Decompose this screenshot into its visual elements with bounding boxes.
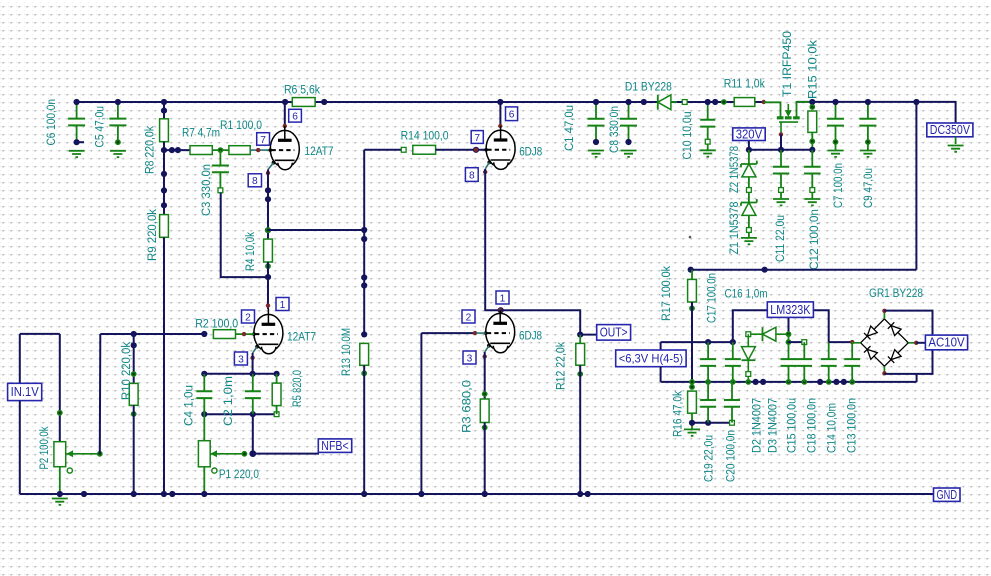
wire bridge top to AC10V [884, 311, 932, 336]
wire heater + rail [661, 341, 733, 343]
junction dot left of D1 [641, 99, 647, 105]
wire to 6,3V label [660, 342, 662, 350]
svg-text:3: 3 [467, 353, 473, 364]
svg-text:R4 10,0k: R4 10,0k [243, 231, 257, 271]
wire C2 node down to NFB node [252, 414, 254, 453]
capacitor C5 top lead [117, 102, 119, 119]
svg-text:2: 2 [466, 312, 472, 323]
svg-text:C7 100,0n: C7 100,0n [831, 163, 845, 208]
junction dot [161, 187, 167, 193]
junction dot [161, 202, 167, 208]
pin bridge AC right [914, 341, 918, 345]
capacitor C9 [859, 119, 876, 126]
pin bridge AC top [882, 309, 886, 313]
svg-text:6DJ8: 6DJ8 [519, 145, 542, 159]
capacitor C3 top lead [219, 150, 221, 165]
junction dot [712, 99, 718, 105]
wire lower node row [204, 413, 276, 415]
ground below C11 [773, 199, 789, 205]
wire input left lower to ground bus [19, 401, 21, 494]
pin P1 wiper [242, 451, 248, 457]
junction dot on R8 top lead [161, 108, 167, 114]
pin on rail after D1 [682, 100, 687, 105]
wire R16 to ground [691, 413, 693, 429]
svg-text:C9 47,0u: C9 47,0u [861, 168, 875, 208]
pin number 6 upper 12AT7 [289, 109, 302, 122]
junction C11 top / T1 source [778, 147, 784, 153]
triode V2 6DJ8 lower half [484, 313, 515, 354]
wire P2 wiper up to grid node [99, 334, 102, 454]
capacitor C12 [804, 167, 821, 174]
svg-text:C10 10,0u: C10 10,0u [680, 112, 694, 160]
svg-text:C17 100,0n: C17 100,0n [705, 273, 719, 323]
pin R14 left [401, 147, 406, 152]
wire 320V label stub [748, 141, 750, 150]
grid lead lower 6DJ8 [476, 332, 486, 334]
wire R14 node down R13 column [363, 150, 365, 336]
junction dot R13 top [361, 331, 367, 337]
cathode lead upper 12AT7 [268, 163, 274, 170]
junction T1 drain/rail [809, 99, 815, 105]
wire C14 node to bridge + [829, 341, 853, 343]
pin 6 marker upper 6DJ8 [498, 124, 502, 128]
wire R4 top node to R13 column [268, 229, 364, 231]
capacitor C7 top lead [835, 102, 837, 119]
wire R12 to ground bus [579, 365, 581, 494]
pin 8 marker upper 6DJ8 [483, 170, 487, 174]
svg-text:C20 100,0n: C20 100,0n [724, 430, 738, 482]
junction R12/ground bus [577, 491, 583, 497]
wire node to R7 [164, 149, 190, 151]
bridge rectifier GR1 BY228 [861, 319, 909, 366]
net label NFB [318, 439, 351, 453]
capacitor C2 top lead [252, 374, 254, 392]
junction C17 top [705, 339, 711, 345]
wire D1 anode lead [671, 101, 677, 103]
pin marker R11/gate node [762, 100, 766, 104]
wire R3 to ground bus [484, 423, 486, 495]
junction cathode [250, 371, 256, 377]
junction R8/R9/R7 node [161, 147, 167, 153]
junction P2/ground bus [57, 491, 63, 497]
junction R6/plate wire [282, 99, 288, 105]
pin 6 marker upper 12AT7 [283, 124, 287, 128]
wire output node to OUT [501, 310, 581, 334]
transistor T1 IRFP450 [777, 102, 813, 134]
pin C11 bottom [779, 188, 784, 193]
pin D2 cathode [746, 372, 751, 377]
wire R17 down to heater bus [691, 302, 693, 382]
junction pin on heater bus [849, 379, 855, 385]
ground below R16 [684, 429, 700, 435]
potentiometer P1 [198, 441, 210, 467]
pin Z1 bottom [747, 228, 752, 233]
net label 320V [733, 128, 766, 141]
pin R16 top [689, 384, 695, 390]
junction dot [265, 196, 271, 202]
resistor R6 [292, 98, 315, 107]
svg-text:C18 100,0n: C18 100,0n [805, 398, 819, 453]
junction C8/rail [625, 99, 631, 105]
capacitor C19 top lead [707, 382, 709, 400]
svg-text:R1 100,0: R1 100,0 [220, 118, 262, 132]
pin R10 bottom [131, 411, 137, 417]
capacitor C11 top lead [780, 150, 782, 167]
cathode lead lower 12AT7 [253, 347, 257, 353]
junction R5 top [274, 371, 280, 377]
wire T1 source down [780, 134, 782, 149]
ground below C6 [69, 151, 85, 157]
svg-text:C4 1,0u: C4 1,0u [182, 385, 196, 426]
wire rail to plate pin 6 upper 6DJ8 [499, 102, 501, 126]
wire to Z2 [748, 150, 750, 164]
triode V2 6DJ8 upper half [484, 130, 515, 171]
junction R15 bottom / C12 top [809, 147, 815, 153]
svg-text:7: 7 [260, 135, 266, 146]
svg-text:R6 5,6k: R6 5,6k [284, 83, 321, 97]
pin 8 marker upper 12AT7 [266, 171, 270, 175]
pin number 6 upper 6DJ8 [506, 107, 518, 121]
resistor R11 [734, 98, 755, 107]
junction dot on ground bus [81, 491, 87, 497]
ground below Z1 [741, 238, 757, 244]
pin C18 top [802, 340, 807, 345]
wire node to P1 top [203, 414, 205, 441]
junction dot [265, 187, 271, 193]
junction C6 bottom [74, 139, 80, 145]
junction C15 top [786, 339, 792, 345]
svg-text:6: 6 [292, 112, 298, 123]
wire P1 bottom to ground bus [203, 467, 205, 494]
svg-text:12AT7: 12AT7 [287, 330, 316, 344]
capacitor C14 top lead [828, 342, 830, 359]
potentiometer P2 wiper arrow [66, 453, 100, 455]
svg-text:R12 22,0k: R12 22,0k [554, 341, 568, 390]
svg-text:8: 8 [469, 170, 475, 181]
ground below C1 [588, 151, 604, 157]
svg-text:C3 330,0n: C3 330,0n [199, 164, 213, 216]
wire LM323K output side [733, 310, 768, 342]
pin P2 top [57, 410, 63, 416]
svg-text:R17 100,0k: R17 100,0k [659, 265, 673, 321]
wire grid node to R10 [133, 334, 135, 383]
capacitor C11 [773, 167, 790, 174]
plate lead inside tube upper 6DJ8 [500, 126, 502, 131]
resistor R12 top lead [579, 335, 581, 344]
capacitor C4 [196, 391, 212, 398]
pin R3 bottom [482, 425, 488, 431]
junction dot [585, 491, 591, 497]
pin R4 bottom [265, 263, 271, 269]
junction on R13 column [361, 227, 367, 233]
resistor R7 [190, 146, 212, 155]
wire C3 bottom to R4/anode node [221, 193, 268, 277]
capacitor C16 [725, 359, 741, 366]
wire cathode node row [204, 373, 276, 375]
junction R3/ground bus [482, 491, 488, 497]
junction pin on heater bus [705, 379, 711, 385]
wire B+ rail right section to DC350V [797, 102, 956, 123]
junction pin on heater bus [730, 379, 736, 385]
junction dot on heater bus [841, 379, 847, 385]
pin source T1 [779, 132, 783, 136]
pin number 2 lower 12AT7 [242, 310, 255, 323]
svg-text:8: 8 [252, 176, 258, 187]
terminal circle P1 [212, 468, 217, 473]
ground below C12 [804, 199, 820, 205]
svg-text:Z2 1N5378: Z2 1N5378 [727, 146, 741, 193]
pin number 2 lower 6DJ8 [462, 310, 475, 323]
wire LM323K input side [813, 310, 828, 342]
capacitor C2 [245, 391, 261, 398]
pin C10 bottom [705, 139, 710, 144]
svg-text:R15 10,0k: R15 10,0k [806, 39, 820, 99]
pin C9 bottom [865, 139, 871, 145]
junction plate pin lower 6DJ8 [498, 307, 504, 313]
capacitor C8 top lead [628, 102, 630, 119]
capacitor C15 [781, 359, 797, 366]
junction R17 top [688, 267, 694, 273]
junction C8 bottom [625, 139, 631, 145]
wire R14 to grid pin 7 upper 6DJ8 [436, 149, 487, 151]
junction OUT node [577, 332, 583, 338]
resistor R1 [229, 146, 250, 155]
svg-text:C12 100,0n: C12 100,0n [807, 209, 821, 270]
junction C10/rail [705, 99, 711, 105]
capacitor C7 [827, 119, 844, 126]
plate lead inside tube lower 6DJ8 [499, 310, 501, 314]
wire R15 bottom [811, 132, 813, 149]
pin bridge minus [882, 371, 886, 375]
wire input top [20, 333, 60, 335]
svg-text:1: 1 [280, 300, 286, 311]
svg-text:T1 IRFP450: T1 IRFP450 [780, 31, 794, 97]
cathode lead lower 6DJ8 [485, 346, 489, 352]
capacitor C20 [724, 400, 740, 407]
ground below C5 [110, 151, 126, 157]
pin number 3 lower 6DJ8 [463, 351, 476, 364]
wire AC10V to bridge bottom [884, 350, 932, 374]
capacitor C16 top lead [732, 342, 734, 359]
junction grid drop/ground bus [418, 491, 424, 497]
wire R7 to R1 [212, 149, 229, 151]
capacitor C9 top lead [867, 102, 869, 119]
wire grid ground drop [420, 333, 422, 494]
wire R9 bottom to ground bus [163, 237, 165, 494]
svg-text:C2 1,0m: C2 1,0m [221, 376, 235, 426]
junction R4 top node [265, 227, 271, 233]
svg-text:R2 100,0: R2 100,0 [195, 317, 238, 331]
junction pin on heater bus [826, 379, 832, 385]
wire P2 bottom to ground bus [59, 467, 61, 494]
junction R10 top [131, 331, 137, 337]
svg-text:R11 1,0k: R11 1,0k [724, 77, 766, 91]
diode D1 BY228 [657, 95, 659, 110]
net label IN.1V [8, 383, 42, 400]
junction pin on heater bus [801, 379, 807, 385]
pin C7 bottom [833, 139, 839, 145]
svg-text:GND: GND [937, 488, 958, 502]
capacitor C12 top lead [811, 150, 813, 167]
capacitor C17 [700, 359, 716, 366]
capacitor C13 [844, 359, 860, 366]
wire P2 wiper to R2 [100, 333, 204, 335]
junction C4 bottom / P1 top [201, 411, 207, 417]
junction dot on heater bus [833, 379, 839, 385]
wire input to P2 top [59, 334, 61, 442]
capacitor C3 [212, 166, 229, 173]
junction C9/rail [865, 99, 871, 105]
svg-text:C5 47,0u: C5 47,0u [93, 106, 107, 148]
ground below P2 [52, 499, 68, 505]
junction pin on heater bus [786, 379, 792, 385]
junction P1/ground bus [201, 491, 207, 497]
net label GND [934, 488, 961, 501]
junction D3/LM323K gnd [786, 331, 792, 337]
wire bus to bridge minus [916, 374, 918, 382]
junction R16/C19/C20 node [689, 420, 695, 426]
wire R8 bottom to R9 top [163, 142, 165, 215]
svg-text:R3 680,0: R3 680,0 [460, 380, 474, 433]
triode V1 12AT7 upper half [269, 130, 300, 171]
pin bridge + output [850, 340, 854, 344]
pin R5 bottom [274, 412, 279, 417]
svg-text:C16 1,0m: C16 1,0m [725, 287, 768, 301]
junction dot on R10 lead [131, 342, 137, 348]
pin R13 bottom [361, 370, 367, 376]
junction dot on ground bus [169, 491, 175, 497]
diode D2 1N4007 [747, 334, 749, 346]
wire grid pin 2 lower 6DJ8 to ground drop [421, 332, 476, 334]
wire C15 to C18 top [789, 341, 805, 343]
wire upper 6DJ8 cathode down to lower 6DJ8 plate node [485, 169, 501, 310]
junction pin 7 [473, 147, 479, 153]
pin number 1 lower 12AT7 [276, 298, 289, 311]
svg-text:R5 820,0: R5 820,0 [290, 370, 304, 407]
svg-text:C8 330,0n: C8 330,0n [607, 106, 621, 153]
pin between Z2 and Z1 [747, 188, 752, 193]
svg-text:D2 1N4007: D2 1N4007 [750, 398, 764, 453]
junction C5/rail [115, 99, 121, 105]
wire cathode lower 6DJ8 to R3 [484, 352, 486, 399]
svg-text:R8 220,0k: R8 220,0k [143, 125, 157, 174]
svg-text:C14 10,0m: C14 10,0m [825, 403, 839, 453]
junction C19 bottom [705, 420, 711, 426]
svg-text:C19 22,0u: C19 22,0u [702, 435, 716, 482]
svg-text:NFB<: NFB< [321, 439, 348, 453]
wire rail down to R17 row [915, 102, 917, 270]
plate lead inside tube lower 12AT7 [267, 309, 269, 316]
svg-text:<6,3V H(4-5): <6,3V H(4-5) [619, 352, 683, 366]
junction dot [175, 147, 181, 153]
pin R15 bottom [809, 138, 815, 144]
svg-text:AC10V: AC10V [928, 336, 965, 350]
pin 7 marker upper 6DJ8 [474, 148, 478, 152]
pin number 1 lower 6DJ8 [496, 291, 509, 304]
svg-text:C1 47,0u: C1 47,0u [562, 105, 576, 151]
capacitor C19 [700, 400, 716, 407]
net label DC350V [927, 123, 973, 137]
junction R4 bottom / C3 node [265, 274, 271, 280]
junction R13/ground bus [361, 491, 367, 497]
capacitor C15 top lead [788, 334, 790, 359]
ground below DC350V [948, 146, 964, 152]
svg-text:C11 22,0u: C11 22,0u [773, 215, 787, 262]
junction dot [762, 267, 768, 273]
resistor R14 [413, 145, 436, 154]
plate lead inside tube [284, 126, 286, 131]
ground below C8 [621, 151, 637, 157]
pin R3 top [482, 391, 488, 397]
junction dot [169, 147, 175, 153]
svg-text:6: 6 [509, 110, 515, 121]
junction dot right of R6 [321, 99, 327, 105]
wire DC350V to ground [955, 137, 957, 144]
wire 320V node row [749, 149, 812, 151]
resistor R5 top lead [276, 374, 278, 383]
wire heater bottom bus [661, 381, 917, 383]
net label AC10V [925, 335, 967, 350]
resistor R15 [808, 111, 817, 132]
cathode lead upper 6DJ8 [485, 162, 489, 169]
svg-text:R9 220,0k: R9 220,0k [145, 208, 159, 261]
svg-text:R16 47,0k: R16 47,0k [671, 390, 685, 437]
svg-text:C13 100,0n: C13 100,0n [845, 398, 859, 453]
junction Z2 top [746, 147, 752, 153]
pin C3 bottom [218, 188, 223, 193]
capacitor C4 top lead [203, 374, 205, 392]
svg-text:DC350V: DC350V [930, 123, 971, 137]
pin number 8 upper 12AT7 [248, 174, 261, 187]
wire R4 bottom to plate of lower 12AT7 [267, 262, 269, 309]
pin R11 left [721, 99, 727, 105]
ground below C10 [700, 150, 716, 156]
svg-text:12AT7: 12AT7 [305, 144, 334, 158]
svg-text:3: 3 [238, 354, 244, 365]
capacitor C13 top lead [851, 342, 853, 359]
pin R4 top [265, 227, 271, 233]
wire cathode to cathode node [252, 353, 254, 374]
junction C2 bottom [250, 411, 256, 417]
capacitor C1 [588, 119, 605, 126]
resistor R3 [480, 399, 489, 423]
wire Z2 to Z1 [748, 177, 750, 203]
resistor R17 top lead [691, 270, 693, 280]
pin C5 bottom [115, 139, 121, 145]
wire R2 to grid pin 2 [236, 333, 254, 335]
svg-text:OUT>: OUT> [600, 326, 628, 340]
resistor R4 [264, 239, 273, 262]
ground below C9 [860, 151, 876, 157]
wire stub at C6 bottom [77, 141, 84, 143]
svg-text:C15 100,0u: C15 100,0u [785, 398, 799, 453]
svg-text:C6 100,0n: C6 100,0n [44, 99, 58, 146]
wire R17 row [691, 269, 917, 271]
junction pin on heater bus [689, 379, 695, 385]
pin 3 marker lower 12AT7 [250, 356, 254, 360]
junction dot [361, 282, 367, 288]
pin 1 marker lower 6DJ8 [499, 308, 503, 312]
junction dot [161, 171, 167, 177]
pin 2 marker lower 12AT7 [242, 332, 246, 336]
junction R7/R1/C3 node [218, 147, 224, 153]
zener diode Z2 1N5378 [741, 161, 757, 168]
capacitor C10 top lead [707, 102, 709, 120]
svg-text:P2 100,0k: P2 100,0k [37, 426, 51, 470]
net label OUT [597, 325, 631, 341]
junction rail/right vertical [913, 99, 919, 105]
svg-text:D1 BY228: D1 BY228 [625, 80, 672, 94]
